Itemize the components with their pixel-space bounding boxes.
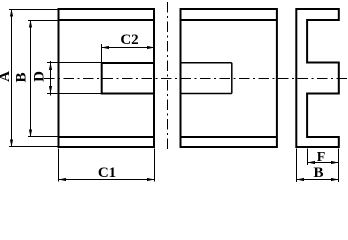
C2 dimension line <box>102 47 155 49</box>
B top arrow <box>29 20 32 28</box>
D dimension line <box>50 61 52 96</box>
svg-text:B: B <box>13 72 29 82</box>
svg-text:B: B <box>313 165 323 181</box>
B top extension line <box>28 20 58 22</box>
A top extension line <box>9 9 58 11</box>
F left extension line <box>307 149 309 166</box>
C1 right arrow <box>147 178 155 181</box>
C2 right arrow <box>147 46 155 49</box>
A dimension line <box>11 9 13 147</box>
F right arrow <box>331 161 339 164</box>
svg-text:F: F <box>317 150 326 165</box>
core top plate inner line <box>58 19 156 21</box>
side bottom plate inner line <box>180 136 278 138</box>
C1 right extension line <box>154 149 156 182</box>
F left arrow <box>308 161 316 164</box>
vertical axis dash-dot <box>167 2 169 151</box>
svg-text:D: D <box>31 71 47 82</box>
B bottom arrow <box>29 130 32 138</box>
A bottom arrow <box>10 140 13 148</box>
B dimension line <box>30 20 32 137</box>
B depth left arrow <box>297 178 305 181</box>
side left edge <box>180 8 182 148</box>
B bottom extension line <box>28 136 58 138</box>
D top arrow <box>49 63 52 71</box>
horizontal axis dash-dot <box>44 78 348 80</box>
side right edge <box>276 8 278 148</box>
A bottom extension line <box>9 146 58 148</box>
core top edge <box>58 8 156 10</box>
C2 extension line <box>101 44 103 62</box>
center leg end face rectangle <box>102 62 154 64</box>
D bottom extension line <box>47 93 59 95</box>
E profile outline <box>296 9 339 147</box>
side top plate inner line <box>180 19 278 21</box>
C1 left extension line <box>58 149 60 182</box>
core bottom plate inner line <box>58 136 156 138</box>
B depth right extension line <box>338 149 340 183</box>
center leg upper thin line <box>59 62 102 64</box>
svg-text:C1: C1 <box>98 165 116 181</box>
B depth right arrow <box>331 178 339 181</box>
svg-text:A: A <box>0 71 13 82</box>
F dimension line <box>308 162 339 164</box>
C2 left arrow <box>102 46 110 49</box>
core bottom edge <box>58 146 156 148</box>
C1 dimension line <box>59 179 155 181</box>
core right edge <box>153 8 155 148</box>
center leg lower thin line <box>59 93 102 95</box>
side top edge <box>180 8 278 10</box>
svg-text:C2: C2 <box>120 32 138 48</box>
core left edge <box>58 8 60 148</box>
side bottom edge <box>180 146 278 148</box>
D bottom arrow <box>49 86 52 94</box>
B depth left extension line <box>296 149 298 183</box>
C1 left arrow <box>59 178 67 181</box>
B depth dimension line <box>297 179 339 181</box>
A top arrow <box>10 9 13 17</box>
D top extension line <box>47 62 59 64</box>
center leg step rectangle <box>181 62 232 64</box>
